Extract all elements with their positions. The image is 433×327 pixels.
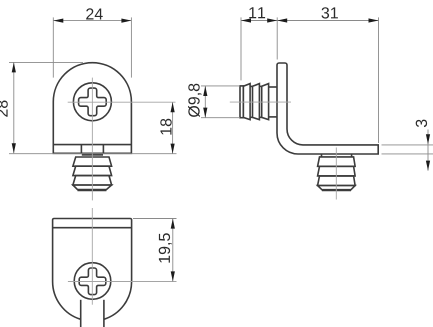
bottom view top inner line (53, 227, 132, 229)
dimension 3 text (416, 120, 427, 128)
front view dowel collar (82, 154, 103, 156)
front view dowel rib 1 (73, 157, 112, 166)
dimension diameter 9.8 top arrow (203, 86, 207, 96)
dimension 18 text (160, 119, 171, 135)
dimension 18 top arrow (171, 102, 175, 112)
dimension 3 lower arrow (426, 161, 430, 171)
side view horizontal dowel centerline (230, 101, 291, 103)
side view horizontal dowel rib connector top 2 (259, 85, 261, 87)
side view bottom dowel collar left edge (321, 155, 323, 157)
dimension diameter 9.8 line (204, 86, 206, 118)
bottom view phillips cross (79, 268, 106, 295)
dimension 3 top extension line (382, 144, 433, 146)
front view dowel rib 2 (73, 166, 112, 175)
dimension 28 bottom arrow (12, 143, 16, 153)
bottom view outline (53, 219, 132, 320)
side view bottom dowel tip (318, 186, 356, 190)
front view screw head circle (73, 83, 111, 121)
dimension 28 bottom extension line and 18 bottom extension (9, 153, 177, 155)
dimension 18 line (172, 102, 174, 153)
side view bottom dowel rib 2 (318, 166, 356, 176)
dimension 24 left extension line (52, 17, 54, 77)
dimension diameter 9.8 bottom extension line (201, 117, 240, 119)
dimension diameter 9.8 text (188, 84, 202, 117)
side view horizontal dowel tip band (240, 86, 243, 118)
dimension 31 right extension line (378, 17, 380, 143)
dimension 31 text (322, 7, 338, 18)
dimension 24 text (86, 8, 103, 19)
dimension 11 right arrow (267, 18, 277, 22)
dimension 28 line (13, 62, 15, 153)
bottom view notch left edge (80, 300, 82, 327)
front view vertical centerline (91, 78, 93, 201)
front view dowel tip bottom edge (78, 189, 107, 191)
dimension 28 top extension line (9, 61, 83, 63)
side view horizontal dowel neck top line (269, 86, 277, 88)
front view neck right edge (102, 145, 104, 154)
dimension 19.5 text (159, 233, 172, 262)
front view bottom flange line (53, 144, 131, 146)
side view horizontal dowel rib 3 (262, 84, 269, 120)
front view phillips cross (79, 88, 107, 116)
side view horizontal dowel rib 1 (243, 84, 250, 120)
dimension 3 line (427, 130, 429, 171)
side view L-bracket outline (277, 63, 378, 154)
dimension 24 left arrow (53, 19, 63, 23)
dimension 11-31 middle extension line (276, 17, 278, 59)
side view bottom dowel collar right edge (351, 155, 353, 157)
dimension diameter 9.8 top extension line (201, 85, 240, 87)
dimension 24 right extension line (130, 17, 132, 77)
front view dowel rib 3 (73, 176, 112, 185)
dimension 28 top arrow (12, 62, 16, 72)
dimension 19.5 bottom arrow (171, 271, 175, 281)
front view dowel tip (73, 185, 112, 190)
dimension 31 right arrow (369, 18, 379, 22)
dimension diameter 9.8 bottom arrow (203, 108, 207, 118)
side view horizontal dowel neck bottom line (269, 116, 277, 118)
side view horizontal dowel rib connector bottom 2 (259, 116, 261, 118)
dimension 11 left arrow (241, 18, 251, 22)
dimension 3 bottom extension line (382, 153, 433, 155)
side view bottom dowel rib 3 (318, 176, 356, 186)
dimension 31 left arrow (277, 18, 287, 22)
side view bottom dowel rib 1 (318, 157, 356, 166)
front view neck left edge (80, 145, 82, 154)
dimension 11 and 31 line (241, 20, 379, 22)
dimension 19.5 line (172, 219, 174, 282)
dimension 28 text (0, 101, 8, 117)
dimension 11 left extension line (240, 17, 242, 80)
side view horizontal dowel rib connector bottom 1 (250, 116, 252, 118)
dimension 19.5 top arrow (171, 219, 175, 229)
dimension 11 text (249, 7, 265, 18)
dimension 19.5 top extension line (133, 218, 177, 220)
bottom view vertical centerline (91, 208, 93, 305)
side view bottom dowel tip bottom edge (322, 189, 351, 191)
bottom view screw head circle (74, 263, 111, 300)
dimension 24 right arrow (121, 19, 131, 23)
dimension 3 upper arrow (426, 134, 430, 144)
side view horizontal dowel rib connector top 1 (250, 85, 252, 87)
side view bottom dowel centerline (335, 148, 337, 200)
dimension 18 bottom arrow (171, 144, 175, 154)
front view body outline (53, 63, 131, 154)
bottom view horizontal centerline and 19.5 bottom extension (68, 281, 177, 283)
side view horizontal dowel rib 2 (253, 84, 260, 120)
bottom view notch right edge (103, 300, 105, 327)
front view horizontal centerline and 18 top extension (68, 101, 176, 103)
dimension 24 line (53, 20, 131, 22)
